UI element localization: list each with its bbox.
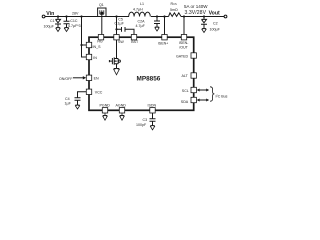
svg-text:IN_S: IN_S	[93, 45, 102, 49]
svg-text:4.7µF: 4.7µF	[136, 24, 146, 28]
svg-text:I²C Bus: I²C Bus	[216, 95, 228, 99]
svg-text:100pF: 100pF	[136, 123, 147, 127]
svg-text:C4: C4	[65, 97, 70, 101]
svg-text:3.3V/28V: 3.3V/28V	[185, 10, 207, 16]
svg-text:VCC: VCC	[95, 90, 103, 94]
svg-text:Q1: Q1	[99, 3, 104, 7]
svg-text:C1: C1	[50, 19, 55, 23]
svg-text:ON/OFF: ON/OFF	[59, 77, 73, 81]
svg-text:5mΩ: 5mΩ	[170, 8, 178, 12]
svg-text:100µF: 100µF	[210, 28, 221, 32]
svg-text:MP8856: MP8856	[137, 75, 161, 82]
svg-text:0.1µF: 0.1µF	[115, 22, 125, 26]
svg-text:HG: HG	[97, 40, 103, 44]
svg-text:C3: C3	[143, 118, 148, 122]
svg-text:C2: C2	[213, 22, 218, 26]
svg-text:28V: 28V	[72, 12, 79, 16]
svg-text:BST: BST	[131, 40, 139, 44]
svg-text:Vout: Vout	[209, 11, 220, 17]
svg-text:RCS: RCS	[171, 2, 177, 6]
svg-text:GATED: GATED	[176, 55, 189, 59]
svg-text:ALT: ALT	[182, 74, 189, 78]
svg-text:/OUT: /OUT	[179, 46, 188, 50]
svg-text:AGND: AGND	[116, 104, 127, 108]
svg-text:4.7µH: 4.7µH	[133, 7, 143, 11]
svg-text:5A or 140W: 5A or 140W	[184, 4, 208, 9]
svg-text:L1: L1	[140, 2, 144, 6]
svg-text:IN: IN	[93, 56, 97, 60]
svg-text:ISEN+: ISEN+	[158, 42, 169, 46]
svg-text:ISEN-: ISEN-	[179, 41, 189, 45]
svg-text:Vin: Vin	[46, 11, 54, 17]
svg-text:1µF: 1µF	[65, 102, 72, 106]
svg-text:C1C: C1C	[70, 19, 78, 23]
svg-text:SW: SW	[118, 40, 124, 44]
svg-text:SDA: SDA	[181, 100, 189, 104]
svg-text:EN: EN	[94, 77, 99, 81]
svg-text:SCL: SCL	[182, 89, 189, 93]
svg-text:C2A: C2A	[138, 20, 146, 24]
svg-text:100µF: 100µF	[44, 24, 55, 28]
svg-text:PGND: PGND	[100, 104, 111, 108]
svg-text:4.7µF*3: 4.7µF*3	[68, 24, 81, 28]
svg-text:ISDN: ISDN	[148, 103, 157, 107]
